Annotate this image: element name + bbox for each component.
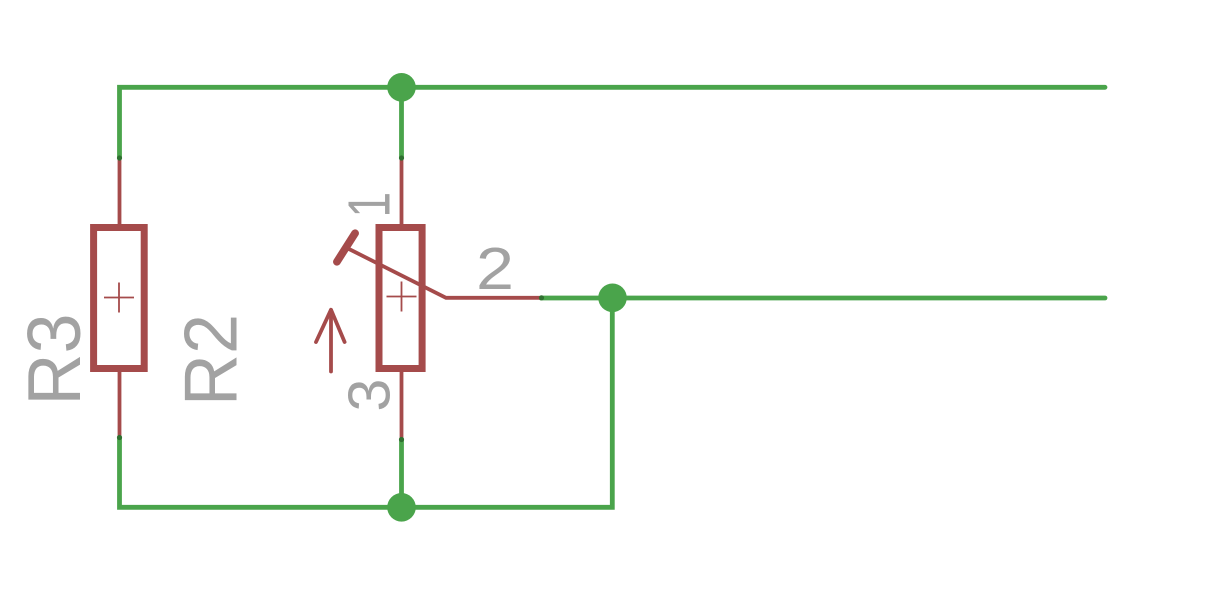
svg-text:2: 2 bbox=[476, 235, 514, 302]
svg-text:R3: R3 bbox=[12, 314, 96, 406]
svg-text:1: 1 bbox=[336, 192, 402, 218]
svg-text:R2: R2 bbox=[169, 314, 253, 406]
svg-text:3: 3 bbox=[336, 379, 402, 412]
